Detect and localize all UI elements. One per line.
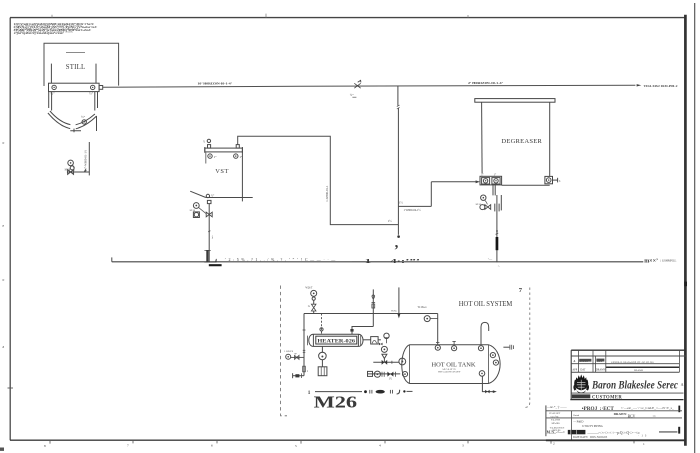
svg-text:a: a xyxy=(3,345,5,349)
revision table texts row 2 xyxy=(572,369,605,372)
main vapor pipe xyxy=(103,85,636,87)
degreaser drain instrument bubble xyxy=(481,195,486,200)
svg-text:1½: 1½ xyxy=(389,378,392,381)
tank drain valve xyxy=(485,390,489,394)
svg-text:½”: ½” xyxy=(211,194,215,197)
svg-text:1 W800-04-1½: 1 W800-04-1½ xyxy=(404,209,421,212)
return drain assembly xyxy=(293,375,304,377)
zone tick left border xyxy=(8,387,14,389)
svg-text:DEGREASER: DEGREASER xyxy=(501,138,542,145)
svg-text:½”: ½” xyxy=(350,93,354,97)
svg-text:TʌL.INIS: TʌL.INIS xyxy=(551,420,561,422)
svg-text:CUSTOMER: CUSTOMER xyxy=(592,396,622,401)
svg-text:::ʌʌMʌͯ·1ʌSʌʌͯͯʌʌʌʌ·ʒʌ·GʌSʌ·ʌM: ::ʌʌMʌͯ·1ʌSʌʌͯͯʌʌʌʌ·ʒʌ·GʌSʌ·ʌMʌʒ·ʌʌ0ʌ: xyxy=(14,29,73,33)
relief gauge bubble xyxy=(381,346,387,352)
DEGREASER body left wall xyxy=(481,102,484,173)
VST vapor pipe to degreaser loop xyxy=(238,136,399,224)
svg-text:½: ½ xyxy=(203,141,205,144)
inline sight glass box xyxy=(371,337,378,344)
svg-text:M 26: M 26 xyxy=(65,169,71,172)
VST drain instrument bubble 2 box xyxy=(193,212,199,218)
svg-text:— P&ID: — P&ID xyxy=(572,420,583,423)
svg-text:1: 1 xyxy=(307,370,309,373)
svg-text:REʌISſB: REʌISſB xyxy=(634,369,643,372)
svg-text:6: 6 xyxy=(211,444,213,448)
drawing frame right heavy border xyxy=(684,15,687,446)
STILL dished bottom inner arc xyxy=(50,111,95,125)
VST drain box xyxy=(207,200,211,203)
svg-text:m××’: m××’ xyxy=(644,259,658,265)
revision table column lines xyxy=(578,350,679,372)
svg-text:e: e xyxy=(3,224,5,228)
STILL flange connection right xyxy=(89,85,95,95)
degreaser water separator box xyxy=(480,176,502,185)
still drain pipe xyxy=(88,142,90,175)
svg-text:M.:S..·=—=: M.:S..·=—= xyxy=(547,430,565,434)
svg-text:10’ H0RIZ0N-I0-1-4’: 10’ H0RIZ0N-I0-1-4’ xyxy=(198,81,233,85)
VST top flange band xyxy=(205,148,243,152)
degreaser drain stub parallel xyxy=(500,195,502,210)
tank drain line xyxy=(482,376,493,391)
tick on right heavy border xyxy=(684,282,687,287)
expansion stack bubble xyxy=(311,290,317,296)
vent gooseneck xyxy=(481,322,489,344)
svg-text:o: o xyxy=(3,278,5,282)
HOT OIL TANK shell top xyxy=(410,344,489,346)
heavy bottom frame segment under title block xyxy=(546,439,686,441)
STILL: outer hood rectangle (open bottom) xyxy=(44,43,119,86)
drawn row divider xyxy=(546,417,682,419)
tank lower nozzle circle xyxy=(402,372,407,377)
line break jog xyxy=(397,105,400,109)
STILL drain valve circle xyxy=(81,115,86,124)
pump to motor line xyxy=(321,360,323,367)
svg-text:HEATER-026: HEATER-026 xyxy=(317,339,355,345)
left column tiny texts xyxy=(549,412,565,432)
hot oil supply header xyxy=(304,313,438,315)
condensate riser xyxy=(430,182,432,207)
VST funnel diagonal xyxy=(190,191,206,197)
svg-text:A: A xyxy=(681,382,684,387)
drawing frame left border xyxy=(9,18,11,441)
revision table bottom line xyxy=(571,371,679,373)
VST top nozzle right xyxy=(236,145,239,149)
drip leg end dot xyxy=(397,235,400,238)
svg-text:DRAWN: DRAWN xyxy=(614,412,627,416)
tank top nozzle 1 xyxy=(435,345,440,350)
return line tick xyxy=(303,329,306,331)
lower line flange bars xyxy=(381,372,383,377)
heater feed drop 1 (dashed) xyxy=(321,314,323,335)
svg-text:VDA 34SJ 023I-P0I-2: VDA 34SJ 023I-P0I-2 xyxy=(644,84,678,88)
zone ticks top border xyxy=(52,14,468,18)
still drain instrument bubble xyxy=(68,160,74,166)
VST drain globe valve xyxy=(206,212,212,217)
svg-text:WD GALON CPC0TY: WD GALON CPC0TY xyxy=(438,371,461,374)
return line dark mark xyxy=(303,349,306,351)
HOT OIL TANK shell bottom xyxy=(410,383,489,385)
header L underscore xyxy=(209,264,222,266)
VST drain line break tick xyxy=(208,231,210,232)
branch from main pipe down xyxy=(397,86,399,106)
hot oil system dashed boundary left xyxy=(281,286,287,416)
condensate horizontal run xyxy=(398,205,431,207)
svg-text:<·—etc_—.·/·:a:_CALE_::—-N·:T_: <·—etc_—.·/·:a:_CALE_::—-N·:T_s_ xyxy=(621,406,674,410)
revision table texts row 1 xyxy=(573,360,602,363)
STILL: upper inner walls xyxy=(50,64,52,84)
expansion stack pipe xyxy=(313,300,315,304)
drawing frame top border xyxy=(10,17,686,19)
svg-text:| GSHMNLL: | GSHMNLL xyxy=(661,259,677,263)
svg-text:DRAWN: DRAWN xyxy=(596,369,606,372)
feed line tee tick xyxy=(391,361,393,364)
VST flanged connection left xyxy=(208,154,217,159)
svg-text:’-: ’- xyxy=(498,264,500,268)
heater pump suction xyxy=(321,346,323,352)
svg-text:¼: ¼ xyxy=(308,305,310,308)
customer row underline xyxy=(570,399,683,401)
scan mark bottom-left corner xyxy=(0,448,4,451)
svg-text:5: 5 xyxy=(295,444,297,448)
revision table row line 1 xyxy=(571,355,686,357)
VST right wall xyxy=(241,152,243,202)
makeup elbow to heater xyxy=(352,327,373,335)
degreaser drain twin drop xyxy=(492,185,494,196)
expansion stack valve (vertical bowtie) xyxy=(311,304,316,311)
condensate inlet line with arrow xyxy=(431,181,478,183)
still drain instrument bubble 2 xyxy=(70,166,74,170)
DEGREASER body bottom xyxy=(502,184,550,186)
tank fill drop from header xyxy=(437,314,439,346)
svg-text:7: 7 xyxy=(519,287,523,294)
svg-text:Baron Blakeslee Serec: Baron Blakeslee Serec xyxy=(591,379,678,392)
water separator cell 1 xyxy=(482,178,490,184)
VST flanged connection right xyxy=(234,154,243,159)
svg-text:2’ H0RIZ0N-I0-1-4’: 2’ H0RIZ0N-I0-1-4’ xyxy=(468,81,503,85)
company logo crest xyxy=(573,374,589,393)
svg-text:1 OD PS: 1 OD PS xyxy=(284,350,294,353)
STILL outlet stub xyxy=(99,86,103,90)
VST bottom nozzle symbol xyxy=(206,194,209,197)
title block left border xyxy=(570,350,572,399)
svg-text:STILL: STILL xyxy=(66,64,86,71)
temperature bubble xyxy=(384,333,389,338)
VST drain pipe xyxy=(208,204,210,262)
svg-text:•0•: •0• xyxy=(294,353,297,356)
hot oil tank feed line xyxy=(373,361,399,363)
svg-text:1”: 1” xyxy=(214,155,218,159)
STILL right wall extension xyxy=(96,116,98,131)
svg-text:4: 4 xyxy=(379,444,381,448)
lower line end box xyxy=(368,371,373,376)
water separator cell 2 xyxy=(492,178,500,184)
drawing frame bottom border xyxy=(10,439,686,441)
tank top nozzle 3 xyxy=(478,346,483,351)
svg-text:M26: M26 xyxy=(314,393,358,412)
approval right bold bar xyxy=(678,427,680,434)
zone numbers bottom xyxy=(44,441,645,448)
svg-text:DALE SET: DALE SET xyxy=(549,412,560,415)
tank inlet nozzle circle xyxy=(399,358,406,365)
small dark valve under xyxy=(379,343,383,346)
approval dark blob xyxy=(568,430,586,434)
svg-text:8: 8 xyxy=(44,444,46,448)
heater cap flange lines xyxy=(312,334,314,346)
STILL flange connection left xyxy=(50,85,56,95)
degreaser drain inline strainer (heavy bar) xyxy=(496,237,499,250)
heater outlet pipe xyxy=(363,339,371,341)
svg-text:i: i xyxy=(212,234,214,239)
svg-text:W 26a-x: W 26a-x xyxy=(418,306,428,309)
svg-text:MFʌIRS: MFʌIRS xyxy=(552,423,561,425)
svg-text:1: 1 xyxy=(308,390,311,396)
revision cell dark smudges xyxy=(579,359,591,362)
title block top border xyxy=(571,349,685,351)
svg-text:b: b xyxy=(559,180,561,183)
relief valve triangle xyxy=(382,354,387,358)
tank right head xyxy=(489,345,501,384)
project underline xyxy=(546,410,682,412)
svg-text:½”: ½” xyxy=(89,92,94,96)
degreaser drain instrument bubble 2 xyxy=(480,205,485,210)
zone ticks bottom border xyxy=(50,440,634,444)
svg-text:3: 3 xyxy=(462,444,464,448)
degreaser drain flange bars xyxy=(494,204,496,212)
suction line valve xyxy=(295,355,299,359)
main pipe off-page arrowhead xyxy=(637,84,642,86)
svg-text:APP: APP xyxy=(572,369,577,372)
company band bottom line xyxy=(571,392,683,394)
degreaser drain connector curve xyxy=(485,200,487,204)
svg-text:1: 1 xyxy=(643,442,645,446)
DEGREASER body right wall xyxy=(549,102,551,176)
svg-text:½”-W800-01-1½: ½”-W800-01-1½ xyxy=(84,149,88,170)
STILL: flange band xyxy=(49,83,100,91)
HEATER-026 vessel xyxy=(309,334,363,346)
tank drain nozzle xyxy=(479,371,485,377)
VST drain instrument bubble 2 xyxy=(194,213,198,217)
svg-text:1-W800-01-1: 1-W800-01-1 xyxy=(325,185,329,202)
svg-text:M 26: M 26 xyxy=(190,209,196,212)
svg-text:—1—–4·:’”’: —1—–4·:’”’ xyxy=(350,258,420,265)
lower block left border xyxy=(545,405,547,436)
svg-text:Rutah: Rutah xyxy=(573,414,580,417)
svg-text:GENERAL REʌISʌONŠ·ЯT··OF·UP·I: GENERAL REʌISʌONŠ·ЯT··OF·UP·ILS xyxy=(611,361,654,364)
outer page scan border right xyxy=(694,3,696,453)
lower block middle divider xyxy=(570,411,572,440)
still drain label arrowhead xyxy=(83,169,86,173)
svg-text:· 1 3: · 1 3 xyxy=(638,435,647,438)
right nozzle stub xyxy=(553,179,558,181)
svg-text:1½: 1½ xyxy=(399,200,404,204)
tank right vent screen xyxy=(503,346,509,348)
pump motor box xyxy=(318,367,327,376)
lower line dark valve xyxy=(387,372,393,377)
CUSTOMER text xyxy=(572,394,590,398)
solvent drain header riser tick xyxy=(111,257,113,261)
revision table heavy divider xyxy=(606,366,680,368)
svg-text:W26 T: W26 T xyxy=(305,286,313,289)
zone letters left border xyxy=(3,141,5,349)
lower line pump bubble xyxy=(374,371,380,377)
tank right head nozzle 1 xyxy=(490,353,495,358)
DEGREASER lid xyxy=(475,99,555,103)
project row right bold bar xyxy=(678,406,680,413)
feed line valve (dark) xyxy=(382,360,388,365)
tank top nozzle 2 xyxy=(452,346,457,351)
still drain horizontal line xyxy=(67,171,89,173)
svg-text:———:-:>:<>:<·>·-p:Q:>:Q<>·-<c:: ———:-:>:<>:<·>·-p:Q:>:Q<>·-<c: xyxy=(586,431,640,435)
circulation pump xyxy=(319,352,327,360)
svg-text:DATE DAYN DWG NO D225: DATE DAYN DWG NO D225 xyxy=(573,436,608,439)
degreaser drain pipe xyxy=(496,195,498,262)
STILL bottom nozzle xyxy=(70,129,81,133)
lower transfer line xyxy=(368,373,401,375)
degreaser drain valve xyxy=(485,205,491,210)
degreaser drain tick xyxy=(496,233,499,234)
expansion stack ring xyxy=(312,297,315,300)
suction line instrument xyxy=(286,354,291,359)
hot oil return vertical xyxy=(303,314,305,376)
still drain globe valve xyxy=(68,170,74,175)
revision table row line 2 xyxy=(571,363,679,365)
svg-text:,: , xyxy=(395,235,399,251)
down line with arrow into tank area xyxy=(398,287,400,314)
tank left head xyxy=(402,345,410,384)
approval long dash xyxy=(659,431,677,433)
svg-text:TʌLERANCES: TʌLERANCES xyxy=(550,427,565,430)
VST left wall (faded) xyxy=(205,152,207,164)
svg-text:—nc.*_·)·——: —nc.*_·)·—— xyxy=(546,405,568,409)
still drain connector curve xyxy=(73,165,74,171)
VST drain instrument bubble xyxy=(193,203,199,209)
fill drop valve bubble xyxy=(430,318,438,320)
VST drain connector curve xyxy=(199,208,206,214)
degreaser right-side nozzle box xyxy=(545,176,553,183)
svg-text:’—: ’— xyxy=(488,257,493,261)
svg-text:½”: ½” xyxy=(50,92,55,96)
svg-text:sss: sss xyxy=(653,415,656,418)
hot oil system dashed boundary right xyxy=(525,288,530,408)
svg-text:•PROJ_:·ECT: •PROJ_:·ECT xyxy=(582,406,615,412)
sight glass outlet xyxy=(378,339,381,341)
STILL dished bottom outer arc xyxy=(48,113,97,129)
svg-text:M 26: M 26 xyxy=(476,203,482,206)
main pipe inline valve symbol xyxy=(354,80,361,88)
tank drain arrowhead xyxy=(493,390,497,393)
heater label box xyxy=(316,336,357,344)
svg-text:DAT: DAT xyxy=(580,369,585,372)
STILL: lower jacket walls xyxy=(48,92,50,108)
makeup line vertical with device xyxy=(372,289,374,326)
svg-text:½”: ½” xyxy=(81,115,86,119)
pump suction cross line xyxy=(291,356,304,358)
svg-text:7: 7 xyxy=(127,444,129,448)
svg-text:UTILITY PIPING: UTILITY PIPING xyxy=(582,425,603,428)
svg-text:W26a: W26a xyxy=(391,309,398,312)
svg-text:A: A xyxy=(573,360,575,363)
VST top nozzle left xyxy=(208,145,211,149)
svg-text:2: 2 xyxy=(553,441,555,445)
tank right head nozzle 2 xyxy=(493,360,498,365)
solvent drain header line xyxy=(112,261,644,263)
general notes text block (illegible scan) xyxy=(14,22,98,35)
VST bottom line xyxy=(206,197,253,199)
VST vent circle xyxy=(207,139,210,142)
svg-text:o: o xyxy=(3,141,5,145)
STILL: lid dash xyxy=(66,52,85,54)
svg-text:1½: 1½ xyxy=(388,219,393,223)
svg-text:VST: VST xyxy=(215,168,229,175)
svg-text:HOT OIL SYSTEM: HOT OIL SYSTEM xyxy=(459,301,513,308)
